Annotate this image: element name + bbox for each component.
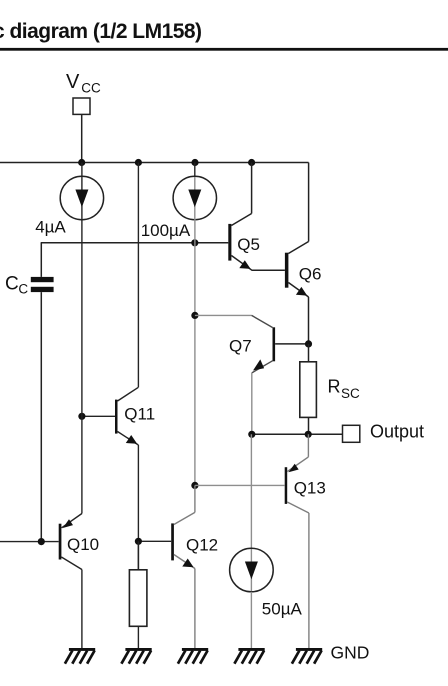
- ground Q10: [65, 648, 95, 664]
- wire output node: [252, 433, 343, 435]
- svg-text:4µA: 4µA: [35, 217, 66, 236]
- transistor Q13: [195, 434, 309, 648]
- svg-text:50µA: 50µA: [262, 600, 303, 619]
- svg-text:Output: Output: [370, 422, 424, 442]
- svg-text:Schematic diagram (1/2 LM158): Schematic diagram (1/2 LM158): [0, 20, 202, 43]
- node rail-Q5 junction: [248, 159, 255, 166]
- svg-text:100µA: 100µA: [141, 221, 191, 240]
- svg-text:SC: SC: [341, 386, 360, 401]
- node output-RSC junction: [305, 431, 312, 438]
- transistor Q12: [138, 485, 195, 648]
- current source I1 4uA: [60, 163, 103, 247]
- node Q12 collector junction: [191, 482, 198, 489]
- current source I2 100uA: [173, 163, 216, 220]
- wire Q5 emitter to Q6 base: [252, 269, 285, 271]
- node 100uA output junction: [191, 239, 198, 246]
- svg-text:Q6: Q6: [299, 265, 322, 284]
- current source I3 50uA: [230, 434, 274, 648]
- node Q7 base junction: [305, 340, 312, 347]
- wire Vcc rail: [0, 162, 309, 164]
- resistor RSC: [300, 344, 317, 434]
- node Q7 collector junction: [191, 312, 198, 319]
- node Q12 base junction: [135, 538, 142, 545]
- transistor Q6: [285, 163, 309, 344]
- svg-text:V: V: [66, 71, 80, 93]
- svg-text:GND: GND: [331, 643, 370, 663]
- svg-text:C: C: [5, 273, 19, 294]
- ground 50uA: [234, 648, 264, 664]
- transistor Q7: [195, 315, 309, 434]
- svg-text:Q13: Q13: [294, 478, 326, 497]
- ground R1: [121, 648, 151, 664]
- node CC-Q10 base junction: [38, 538, 45, 545]
- transistor Q10: [0, 246, 82, 648]
- resistor R1: [129, 541, 147, 648]
- ground Q13: [292, 648, 322, 664]
- capacitor CC: [31, 243, 54, 542]
- svg-text:Q7: Q7: [229, 336, 252, 355]
- node rail-Q11 junction: [135, 159, 142, 166]
- wire node195 column: [194, 219, 196, 485]
- Vcc terminal pad: [73, 98, 90, 114]
- node rail-100uA junction: [191, 159, 198, 166]
- transistor Q11: [82, 163, 138, 570]
- svg-text:Q10: Q10: [67, 535, 99, 554]
- heading rule: [0, 48, 448, 51]
- svg-text:Q11: Q11: [124, 404, 155, 423]
- wire Q5 base bus y=242.8: [41, 242, 229, 244]
- svg-text:Q12: Q12: [186, 535, 218, 554]
- node output-Q7 junction: [248, 431, 255, 438]
- svg-text:CC: CC: [81, 80, 101, 95]
- transistor Q5: [228, 163, 252, 271]
- wire Vcc stem: [81, 114, 83, 162]
- svg-text:C: C: [18, 281, 28, 296]
- terminal pad Output: [343, 425, 360, 442]
- svg-text:R: R: [328, 377, 341, 397]
- node Q11 base junction: [78, 413, 85, 420]
- node rail-Vcc junction: [78, 159, 85, 166]
- svg-text:Q5: Q5: [237, 235, 260, 254]
- ground Q12: [178, 648, 208, 664]
